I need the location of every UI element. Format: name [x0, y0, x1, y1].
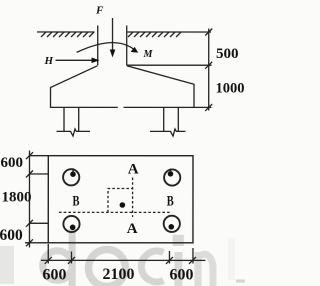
extension line left pile column — [70, 251, 72, 263]
vertical dashed centerline — [132, 178, 134, 218]
extension line bottom pile row — [29, 222, 48, 224]
pile circle top-right — [164, 169, 180, 185]
moment M arc — [77, 43, 135, 53]
pile tick top-right — [169, 169, 171, 173]
cap top extension line to dim — [127, 64, 212, 66]
extension line left corner — [47, 244, 49, 263]
moment M arrowhead — [131, 47, 139, 53]
bottom dim tick right pile — [166, 257, 173, 264]
extension line rect bottom — [25, 242, 48, 244]
dim tick cap top — [205, 62, 212, 69]
pile dot top-right — [168, 171, 174, 177]
left pile break line — [57, 129, 91, 136]
svg-text:B: B — [72, 194, 79, 210]
watermark c — [141, 251, 163, 282]
pile cap outline — [51, 66, 195, 108]
pile circle bottom-right — [164, 216, 180, 232]
svg-text:H: H — [44, 55, 54, 67]
watermark n — [195, 252, 213, 286]
bottom dimension line — [41, 259, 205, 261]
pile dot bottom-right — [168, 224, 174, 230]
force F arrowhead — [110, 49, 116, 57]
column left edge — [97, 25, 99, 65]
ground line left — [37, 31, 94, 33]
left dim tick row2 — [26, 220, 33, 227]
pile circle bottom-left — [63, 216, 79, 232]
pile dot top-left — [70, 171, 76, 177]
watermark d stem — [69, 229, 76, 286]
svg-text:600: 600 — [0, 155, 23, 171]
svg-text:600: 600 — [42, 266, 66, 283]
extension line right corner — [192, 248, 194, 263]
right pile edge lines — [164, 107, 179, 131]
force F arrow line — [112, 18, 114, 52]
left dimension line — [28, 150, 30, 247]
force H arrowhead — [92, 57, 100, 63]
centroid dot — [120, 202, 126, 208]
right pile break line — [150, 129, 186, 136]
pile circle top-left — [63, 169, 79, 185]
svg-text:1000: 1000 — [216, 81, 245, 97]
watermark small dash bottom right — [236, 280, 245, 283]
dim tick cap bottom — [205, 104, 212, 111]
svg-text:B: B — [167, 194, 174, 210]
extension line rect top — [29, 155, 48, 157]
right dimension line — [208, 29, 210, 111]
svg-text:A: A — [127, 221, 138, 237]
bottom dim tick left corner — [45, 257, 52, 264]
svg-text:2100: 2100 — [102, 266, 134, 283]
pile tick top-left — [72, 168, 74, 172]
svg-text:500: 500 — [216, 46, 239, 62]
pile dot bottom-left — [70, 224, 76, 230]
svg-text:A: A — [128, 162, 139, 178]
ground line right — [127, 31, 211, 33]
left dim tick bottom — [26, 239, 33, 246]
force H arrow line — [56, 59, 94, 61]
svg-text:600: 600 — [0, 227, 23, 244]
svg-text:M: M — [143, 49, 154, 60]
cap bottom extension line to dim — [194, 106, 212, 108]
watermark o — [88, 249, 125, 286]
svg-text:F: F — [95, 4, 104, 16]
ground hatch left — [41, 32, 94, 37]
left dim tick top — [26, 152, 33, 159]
bottom dim tick left pile — [68, 257, 75, 264]
extension line right pile column — [168, 251, 170, 264]
left pile edge lines — [64, 107, 79, 131]
svg-text:600: 600 — [169, 267, 193, 284]
bottom dim tick right corner — [189, 257, 196, 264]
watermark letter fragment left edge — [0, 246, 14, 284]
svg-text:1800: 1800 — [1, 189, 31, 205]
left dim tick row1 — [26, 170, 33, 177]
horizontal dashed centerline — [59, 211, 171, 213]
plan cap rectangle — [48, 156, 193, 243]
watermark i stem — [174, 252, 182, 286]
watermark i dot — [173, 235, 184, 246]
ground hatch right — [128, 32, 181, 37]
column right edge — [126, 26, 128, 66]
dim tick ground level — [205, 29, 212, 36]
watermark d bowl — [43, 251, 73, 281]
column outline dashed square — [108, 188, 133, 212]
watermark faint right streak — [228, 238, 235, 280]
extension line top pile row — [29, 173, 48, 175]
